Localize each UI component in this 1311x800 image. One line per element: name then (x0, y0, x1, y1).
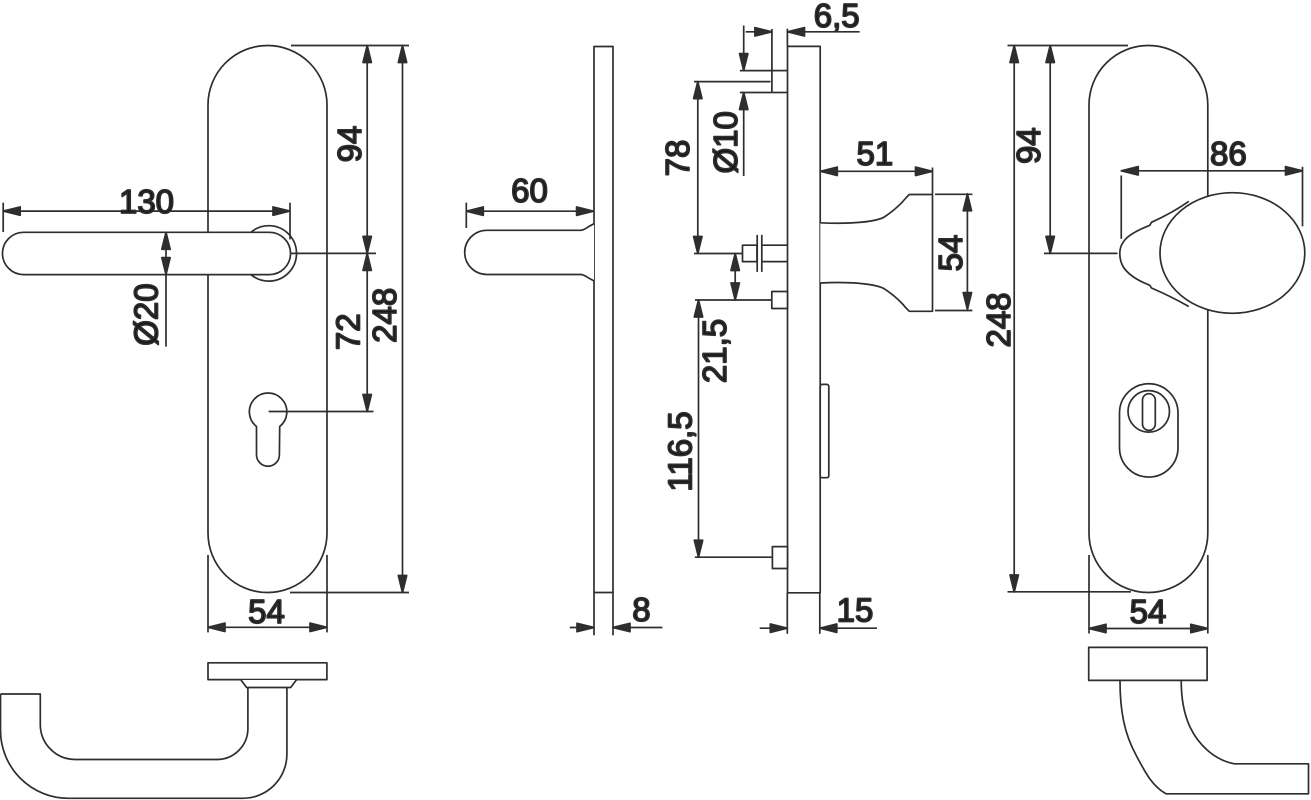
svg-text:248: 248 (980, 292, 1017, 347)
svg-text:94: 94 (331, 126, 368, 163)
dimension 51 (820, 167, 932, 194)
dimension 86 (1121, 167, 1302, 239)
svg-text:116,5: 116,5 (662, 411, 699, 491)
rose circle V1 (241, 226, 296, 281)
dimension 78 (694, 82, 771, 254)
security rosette V4 (1120, 384, 1179, 477)
backplate V1 outline (208, 46, 327, 593)
dimension Ø10 (740, 26, 772, 177)
svg-text:78: 78 (659, 140, 696, 177)
dimension 21,5 (695, 254, 772, 301)
knob neck V4 (1120, 201, 1189, 306)
knob V3 trumpet profile (820, 195, 932, 312)
dimension Ø20 (162, 232, 170, 346)
svg-text:51: 51 (857, 135, 894, 172)
lever V2 side (465, 224, 594, 281)
svg-text:Ø20: Ø20 (127, 283, 164, 345)
svg-text:Ø10: Ø10 (707, 111, 744, 173)
knob rose plate side view (1089, 647, 1207, 680)
knob neck curve bottom-right (1120, 680, 1309, 793)
lever neck (241, 680, 296, 688)
svg-text:8: 8 (632, 591, 650, 628)
knob oval V4 (1160, 193, 1305, 314)
dimension 6,5 (746, 28, 860, 36)
bottom fixing pin (772, 547, 787, 569)
keyhole V1 (249, 393, 287, 466)
dimension 54 knob (935, 194, 972, 311)
dimension 8 (570, 593, 663, 636)
dimension 54 V4 (1089, 555, 1208, 634)
backplate V2 side (594, 47, 613, 593)
backplate V3 side (788, 46, 821, 592)
dimension 54 V1 (208, 555, 327, 633)
svg-text:54: 54 (248, 593, 285, 630)
svg-text:54: 54 (1130, 593, 1167, 630)
svg-text:15: 15 (837, 592, 874, 629)
cylinder cover bump V3 (820, 384, 829, 477)
dimension 130 (3, 203, 290, 240)
svg-text:6,5: 6,5 (814, 0, 860, 34)
third fixing pin (772, 292, 788, 309)
svg-text:130: 130 (119, 183, 174, 220)
dimension 116,5 (694, 300, 772, 557)
middle spindle screw (743, 235, 788, 272)
svg-text:72: 72 (329, 313, 366, 350)
svg-text:86: 86 (1210, 135, 1247, 172)
dimension 94 / 72 chain V1 (363, 46, 371, 412)
svg-text:54: 54 (932, 235, 969, 272)
top fixing screw (772, 29, 788, 93)
dimension 15 (760, 593, 877, 634)
backplate V4 outline (1089, 45, 1208, 592)
lever rose plate side view (208, 663, 327, 680)
lever handle curved body (1, 688, 287, 799)
dimension 248 V1 (398, 46, 406, 593)
lever bar V1 (2, 232, 290, 274)
svg-text:248: 248 (366, 288, 403, 343)
dimension 248 V4 (1008, 46, 1132, 593)
svg-text:60: 60 (511, 172, 548, 209)
svg-text:94: 94 (1010, 127, 1047, 164)
dimension 94 V4 (1044, 46, 1118, 254)
svg-text:21,5: 21,5 (696, 319, 733, 383)
extension lines V1 (269, 46, 409, 593)
dimension 60 (466, 203, 593, 228)
plate face extension line top (786, 29, 788, 47)
